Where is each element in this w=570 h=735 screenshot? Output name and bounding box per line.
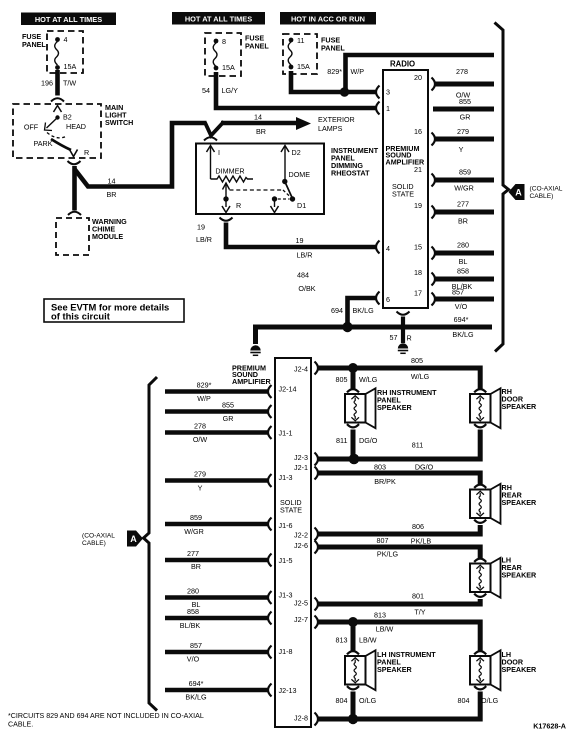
svg-text:858: 858 (457, 267, 469, 276)
svg-text:857: 857 (190, 641, 202, 650)
junction node J2-3 wire (349, 454, 360, 465)
svg-text:1: 1 (386, 104, 390, 113)
svg-text:804: 804 (336, 696, 348, 705)
wire 279 Y to amp J1-3 (165, 478, 268, 483)
svg-text:*CIRCUITS 829 AND 694 ARE NOT: *CIRCUITS 829 AND 694 ARE NOT INCLUDED I… (8, 712, 204, 720)
svg-text:57: 57 (390, 333, 398, 342)
svg-text:805: 805 (336, 375, 348, 384)
connector below rheostat R (220, 218, 233, 221)
svg-text:807: 807 (377, 536, 389, 545)
svg-text:LG/Y: LG/Y (222, 86, 239, 95)
connector LH rear speaker top (474, 559, 486, 562)
LH door speaker (470, 650, 501, 690)
label 484 O/BK (297, 271, 316, 294)
label 829* W/P (327, 67, 364, 76)
svg-text:GR: GR (460, 113, 471, 122)
wire dip tap into rheostat (205, 122, 224, 136)
node D1 output (272, 196, 277, 201)
junction node J2-7 wire (348, 617, 358, 627)
svg-text:W/P: W/P (197, 394, 211, 403)
switch terminal B2 (55, 115, 59, 119)
svg-text:PANEL: PANEL (22, 40, 46, 49)
svg-text:OFF: OFF (24, 123, 39, 132)
svg-text:SPEAKER: SPEAKER (377, 665, 413, 674)
wire 278 O/W to amp J1-1 (165, 430, 268, 435)
svg-text:21: 21 (414, 165, 422, 174)
wire 694* BK/LG bus (256, 327, 493, 344)
radio pin 18 connector (432, 273, 436, 286)
svg-text:of this circuit: of this circuit (51, 310, 110, 321)
radio right pin labels (414, 73, 422, 298)
svg-text:SPEAKER: SPEAKER (502, 665, 538, 674)
svg-text:J2-1: J2-1 (294, 463, 308, 472)
ground G (bus left end) (250, 345, 260, 355)
exterior lamps arrowhead (296, 117, 311, 130)
ground G (radio) (398, 343, 408, 353)
svg-text:15A: 15A (64, 62, 77, 71)
svg-text:LB/R: LB/R (297, 251, 313, 260)
connector J1-8 (268, 646, 272, 659)
connector at main light switch top (51, 98, 64, 101)
EVTM note box (44, 299, 184, 322)
svg-text:PARK: PARK (33, 139, 52, 148)
warning chime module box (dashed) (56, 218, 89, 255)
svg-text:BR: BR (256, 127, 266, 136)
svg-text:SPEAKER: SPEAKER (502, 571, 538, 580)
svg-text:DG/O: DG/O (415, 463, 434, 472)
svg-text:857: 857 (452, 288, 464, 297)
svg-text:15: 15 (414, 243, 422, 252)
svg-text:O/LG: O/LG (359, 696, 377, 705)
connector J1-5 (268, 554, 272, 567)
svg-text:280: 280 (457, 241, 469, 250)
svg-text:A: A (515, 188, 522, 198)
wire 805 W/LG J2-4 to RH door speaker (318, 368, 480, 389)
svg-text:196: 196 (41, 79, 53, 88)
svg-text:DOME: DOME (289, 170, 311, 179)
label (CO-AXIAL CABLE) right (530, 186, 563, 201)
wire 813 LB/W J2-7 to LH door speaker (318, 622, 480, 651)
instrument panel dimming rheostat box (196, 144, 324, 215)
svg-text:K17628-A: K17628-A (533, 722, 566, 731)
linkage dashed lines (230, 189, 284, 191)
connector RH rear speaker bottom (474, 520, 486, 523)
connector (855) (268, 405, 272, 418)
svg-text:19: 19 (296, 236, 304, 245)
flag A (left) (127, 531, 143, 547)
svg-text:AMPLIFIER: AMPLIFIER (232, 377, 272, 386)
wire 811 DG/O down from RH inst speaker (351, 430, 356, 460)
svg-text:J2-5: J2-5 (294, 599, 308, 608)
fuse F1 4 15A (55, 35, 77, 71)
svg-text:BL/BK: BL/BK (180, 621, 201, 630)
svg-text:813: 813 (336, 636, 348, 645)
svg-text:T/W: T/W (63, 79, 76, 88)
radio pin 3 connector (376, 86, 380, 99)
fuse F2 8 15A (213, 37, 235, 72)
fuse panel 3 (dashed box) (283, 34, 317, 74)
connector J1-6 (268, 518, 272, 531)
wire fuse3 to junction (291, 71, 376, 92)
svg-text:DIMMER: DIMMER (215, 167, 244, 176)
svg-text:V/O: V/O (187, 655, 200, 664)
wire 857 V/O to amp J1-8 (165, 650, 268, 655)
svg-text:6: 6 (386, 295, 390, 304)
svg-text:17: 17 (414, 289, 422, 298)
svg-text:694*: 694* (189, 679, 204, 688)
wire 803 DG/O J2-1 to RH rear speaker (318, 473, 480, 485)
svg-text:J1-5: J1-5 (279, 556, 293, 565)
svg-text:HOT IN ACC OR RUN: HOT IN ACC OR RUN (291, 14, 365, 23)
svg-text:14: 14 (254, 113, 262, 122)
wire from switch R down to warning chime (72, 166, 77, 211)
wire 694* BK/LG to amp J2-13 (165, 688, 268, 693)
banner HOT AT ALL TIMES (middle) (172, 12, 265, 25)
connector J2-8 (315, 713, 319, 726)
junction node J2-4 wire (348, 363, 358, 373)
dimmer wiper arrow (223, 183, 230, 190)
wire 280 BL to amp J1-3 (165, 595, 268, 600)
connector LH door speaker bottom (474, 686, 486, 689)
wire 277 BR (435, 210, 494, 215)
switch travel arc (dashed) (47, 133, 67, 138)
rheostat pin I arrow (207, 146, 215, 153)
banner HOT IN ACC OR RUN (280, 12, 376, 25)
label 196 T/W (41, 79, 76, 88)
svg-text:SPEAKER: SPEAKER (502, 402, 538, 411)
svg-text:19: 19 (197, 223, 205, 232)
wire 14 BR switch to riser (75, 123, 207, 187)
wire 859 W/GR (435, 178, 494, 183)
svg-text:855: 855 (222, 401, 234, 410)
svg-text:J1-3: J1-3 (279, 473, 293, 482)
wire 858 BL/BK to amp (165, 616, 268, 621)
svg-text:855: 855 (459, 97, 471, 106)
label LH INSTRUMENT PANEL SPEAKER (377, 650, 436, 674)
svg-text:694*: 694* (454, 315, 469, 324)
footnote (8, 712, 204, 729)
amplifier internal label SOLID STATE (280, 498, 302, 514)
node DOME (282, 179, 287, 184)
wire 279 Y (435, 137, 494, 142)
wire 19 LB/R rheostat to radio pin 4 (226, 223, 376, 248)
svg-text:GR: GR (223, 414, 234, 423)
label 694 BK/LG (331, 306, 374, 315)
svg-text:J2-3: J2-3 (294, 453, 308, 462)
svg-text:J2-14: J2-14 (279, 385, 297, 394)
svg-text:BR/PK: BR/PK (374, 477, 396, 486)
svg-text:R: R (236, 201, 241, 210)
svg-text:O/BK: O/BK (298, 284, 315, 293)
wire 804 O/LG LH door to J2-8 (318, 692, 480, 720)
svg-text:O/LG: O/LG (481, 696, 499, 705)
junction node J2-8 wire (348, 714, 358, 724)
radio pin 1 connector (376, 102, 380, 115)
connector J2-5 (315, 598, 319, 611)
svg-text:8: 8 (222, 37, 226, 46)
label RH INSTRUMENT PANEL SPEAKER (377, 388, 437, 412)
wire 804 O/LG down from LH inst speaker (351, 692, 356, 720)
radio internal label PREMIUM SOUND AMPLIFIER (386, 144, 426, 166)
label EXTERIOR LAMPS (318, 115, 355, 133)
wire 196 T/W fuse1 to switch (55, 70, 60, 96)
radio pin 20 connector (432, 78, 436, 91)
main light switch label (105, 103, 133, 127)
svg-text:J2-13: J2-13 (279, 686, 297, 695)
svg-text:BR: BR (458, 217, 468, 226)
connector J2-1 (315, 467, 319, 480)
flag A (right) (509, 184, 525, 200)
switch entry arrow (54, 106, 62, 113)
svg-text:LB/R: LB/R (196, 235, 212, 244)
dimmer resistor (211, 176, 254, 182)
svg-text:15A: 15A (297, 62, 310, 71)
svg-text:Y: Y (459, 145, 464, 154)
svg-text:279: 279 (457, 127, 469, 136)
node R wiper (223, 196, 228, 201)
radio internal label SOLID STATE (392, 182, 414, 198)
connector below switch (68, 161, 81, 164)
svg-text:278: 278 (194, 422, 206, 431)
svg-text:811: 811 (336, 436, 347, 445)
switch R output arrow (70, 150, 78, 157)
svg-text:805: 805 (411, 356, 423, 365)
svg-text:R: R (407, 334, 412, 343)
svg-text:B2: B2 (63, 113, 72, 122)
svg-text:HOT AT ALL TIMES: HOT AT ALL TIMES (35, 15, 102, 24)
RH instrument panel speaker (345, 388, 376, 428)
wire 54 LG/Y fuse2 to radio pin 1 (216, 72, 376, 108)
connector under radio (57 R) (397, 312, 410, 315)
svg-text:277: 277 (187, 549, 199, 558)
fuse panel 1 (dashed box) (47, 31, 83, 73)
rheostat pin D2 arrow (281, 146, 289, 153)
svg-text:54: 54 (202, 86, 210, 95)
svg-text:BK/LG: BK/LG (452, 330, 474, 339)
svg-text:14: 14 (108, 177, 116, 186)
svg-text:J1-3: J1-3 (279, 591, 293, 600)
node D1 (290, 196, 295, 201)
label 694* BK/LG (right) (452, 315, 474, 339)
label 14 BR (lower run) (107, 177, 117, 200)
svg-text:BR: BR (191, 562, 201, 571)
co-axial brace (left) (144, 377, 158, 711)
connector at rheostat pin I (204, 137, 217, 140)
svg-text:DG/O: DG/O (359, 436, 378, 445)
svg-text:20: 20 (414, 73, 422, 82)
radio pin 21 connector (432, 174, 436, 187)
wire 694 BK/LG to radio pin 6 (348, 298, 376, 327)
amp right pin labels (294, 365, 308, 723)
wire 280 BL (435, 251, 494, 256)
svg-text:J2-4: J2-4 (294, 365, 308, 374)
svg-text:4: 4 (64, 35, 68, 44)
svg-text:806: 806 (412, 522, 424, 531)
svg-text:T/Y: T/Y (414, 608, 425, 617)
connector RH instrument panel speaker top (347, 389, 359, 392)
svg-text:BR: BR (107, 190, 117, 199)
svg-text:J2-6: J2-6 (294, 541, 308, 550)
svg-text:I: I (218, 148, 220, 157)
svg-text:694: 694 (331, 306, 343, 315)
switch lever to OFF (47, 118, 58, 129)
D1 output arrow (274, 199, 276, 207)
svg-text:859: 859 (459, 168, 471, 177)
svg-text:278: 278 (456, 67, 468, 76)
svg-text:RHEOSTAT: RHEOSTAT (331, 169, 370, 178)
svg-text:18: 18 (414, 268, 422, 277)
fuse panel 2 (dashed box) (205, 33, 241, 76)
svg-text:(CO-AXIAL: (CO-AXIAL (530, 186, 563, 193)
svg-text:J2-7: J2-7 (294, 615, 308, 624)
radio box (383, 70, 428, 308)
label RH REAR SPEAKER (502, 483, 538, 507)
fuse F3 11 15A (288, 36, 310, 71)
svg-text:CABLE): CABLE) (530, 193, 554, 200)
label 54 LG/Y (202, 86, 238, 95)
connector LH door speaker top (474, 651, 486, 654)
svg-text:W/GR: W/GR (184, 527, 204, 536)
connector J2-3 (315, 453, 319, 466)
svg-text:HEAD: HEAD (66, 122, 86, 131)
svg-text:BK/LG: BK/LG (185, 693, 207, 702)
radio pin 19 connector (432, 206, 436, 219)
svg-text:J2-8: J2-8 (294, 714, 308, 723)
svg-text:279: 279 (194, 470, 206, 479)
svg-text:J1-1: J1-1 (279, 429, 293, 438)
label RH DOOR SPEAKER (502, 387, 538, 411)
connector LH instrument panel speaker top (347, 651, 359, 654)
svg-text:V/O: V/O (455, 302, 468, 311)
svg-text:W/GR: W/GR (454, 184, 474, 193)
connector J2-14 (268, 385, 272, 398)
wire 805 W/LG down to RH instrument panel speaker (351, 368, 356, 389)
svg-text:STATE: STATE (392, 190, 414, 199)
wire 859 W/GR to amp J1-6 (165, 522, 268, 527)
svg-text:D1: D1 (297, 201, 306, 210)
wire 278 O/W (435, 82, 494, 87)
fuse panel 2 label (245, 34, 269, 51)
amplifier label PREMIUM SOUND AMPLIFIER (232, 364, 272, 386)
svg-text:J2-2: J2-2 (294, 531, 308, 540)
wire 806 PK/LB RH rear to J2-2 (318, 525, 480, 534)
connector (858) (268, 612, 272, 625)
svg-text:PK/LG: PK/LG (377, 550, 399, 559)
svg-text:O/W: O/W (193, 435, 208, 444)
wire 858 BL/BK (435, 277, 494, 282)
svg-text:(CO-AXIAL: (CO-AXIAL (82, 533, 115, 540)
main light switch box (dashed) (13, 104, 101, 158)
wire 829* W/P riser and top run (346, 55, 495, 92)
label 19 LB/R (left of vertical) (196, 223, 212, 245)
RH rear speaker (470, 484, 501, 524)
svg-text:801: 801 (412, 592, 424, 601)
wire 801 T/Y LH rear to J2-5 (318, 599, 480, 604)
svg-text:19: 19 (414, 201, 422, 210)
svg-text:PANEL: PANEL (321, 44, 345, 53)
svg-text:SPEAKER: SPEAKER (502, 498, 538, 507)
svg-text:BL: BL (459, 257, 468, 266)
connector J1-3 (268, 474, 272, 487)
label LH REAR SPEAKER (502, 556, 538, 580)
svg-text:STATE: STATE (280, 505, 302, 514)
warning chime connector (68, 212, 81, 215)
wire 57 R to ground (401, 317, 405, 344)
warning chime module label (92, 217, 127, 241)
wire 813 LB/W down to LH instrument panel speaker (351, 622, 356, 651)
rheostat label (331, 146, 379, 178)
radio pin 15 connector (432, 247, 436, 260)
svg-text:859: 859 (190, 513, 202, 522)
svg-text:HOT AT ALL TIMES: HOT AT ALL TIMES (185, 14, 252, 23)
junction node on bus (342, 322, 352, 332)
wire 855 GR (433, 107, 494, 112)
label (CO-AXIAL CABLE) left (82, 533, 115, 548)
svg-text:BK/LG: BK/LG (353, 306, 375, 315)
junction node pin3 wire (340, 87, 349, 96)
svg-text:EXTERIOR: EXTERIOR (318, 115, 355, 124)
connector J2-6 (315, 541, 319, 554)
fuse panel 3 label (321, 36, 345, 53)
svg-text:804: 804 (458, 696, 470, 705)
svg-text:D2: D2 (292, 148, 301, 157)
radio pin 17 connector (432, 293, 436, 306)
connector J1-3b (268, 591, 272, 604)
svg-text:J1-8: J1-8 (279, 647, 293, 656)
svg-text:PANEL: PANEL (245, 42, 269, 51)
switch contact lever (thick) (51, 139, 71, 150)
svg-text:CABLE): CABLE) (82, 540, 106, 547)
wire 811 from RH door speaker to J2-3 (318, 430, 480, 460)
svg-text:811: 811 (412, 441, 423, 450)
banner HOT AT ALL TIMES (left) (21, 13, 116, 26)
svg-text:CABLE.: CABLE. (8, 721, 33, 729)
radio pin 16 connector (432, 133, 436, 146)
svg-text:829*: 829* (197, 381, 212, 390)
svg-text:SPEAKER: SPEAKER (377, 403, 413, 412)
connector J2-2 (315, 528, 319, 541)
wire 277 BR to amp J1-5 (165, 558, 268, 563)
svg-text:829*: 829* (327, 67, 342, 76)
LH rear speaker (470, 558, 501, 598)
svg-text:A: A (130, 534, 137, 544)
connector LH rear speaker bottom (474, 594, 486, 597)
svg-text:813: 813 (374, 611, 386, 620)
label LH DOOR SPEAKER (502, 650, 538, 674)
wire 855 GR to amp (165, 409, 268, 414)
connector J2-7 (315, 616, 319, 629)
amplifier box (275, 358, 311, 727)
svg-text:W/P: W/P (351, 67, 365, 76)
svg-text:16: 16 (414, 127, 422, 136)
amp left pin labels (279, 385, 297, 696)
svg-text:LB/W: LB/W (359, 636, 377, 645)
svg-text:15A: 15A (222, 63, 235, 72)
svg-text:277: 277 (457, 200, 469, 209)
svg-text:LAMPS: LAMPS (318, 124, 343, 133)
wire 807 PK/LG J2-6 to LH rear speaker (318, 547, 480, 559)
svg-text:W/LG: W/LG (411, 372, 430, 381)
svg-text:858: 858 (187, 607, 199, 616)
connector RH instrument panel speaker bottom (347, 424, 359, 427)
svg-text:3: 3 (386, 88, 390, 97)
LH instrument panel speaker (345, 650, 376, 690)
rheostat R output arrow (225, 199, 227, 207)
svg-text:PK/LB: PK/LB (411, 537, 432, 546)
connector LH instrument panel speaker bottom (347, 686, 359, 689)
svg-text:LB/W: LB/W (376, 625, 394, 634)
dome switch lever (285, 182, 293, 199)
